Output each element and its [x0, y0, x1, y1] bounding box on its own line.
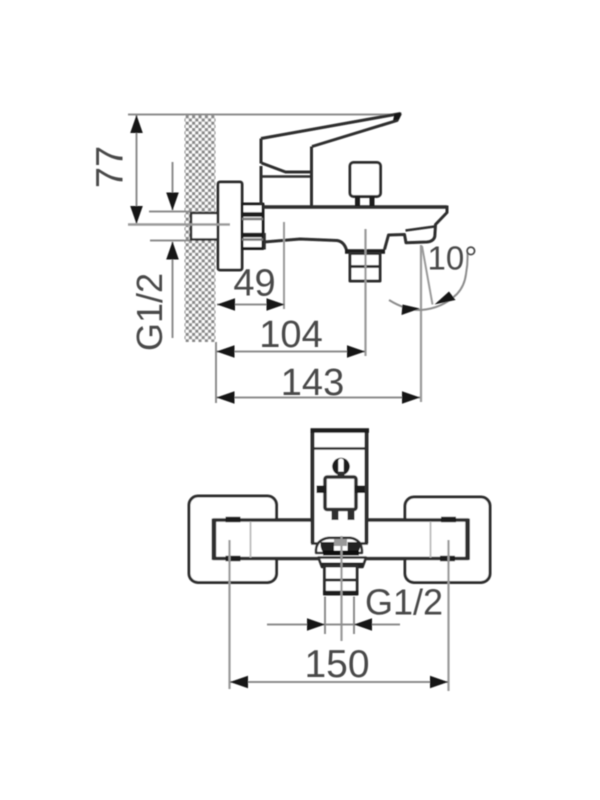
svg-text:49: 49 — [233, 263, 275, 305]
body underside — [264, 239, 347, 250]
arrow 77 down — [130, 206, 143, 224]
10 degree tilted ray — [422, 246, 433, 305]
lever chin — [262, 163, 312, 172]
dimension 104 line — [217, 351, 366, 353]
bar left end cap — [212, 519, 216, 561]
cartridge housing top flange — [261, 175, 312, 178]
spout axis extension line — [420, 245, 422, 402]
cartridge axis extension line — [283, 222, 285, 309]
svg-text:143: 143 — [281, 362, 344, 404]
150 extension line right — [447, 540, 449, 691]
knob stem right — [370, 197, 375, 207]
arrow 150 right — [430, 676, 448, 689]
thread bottom thick — [323, 591, 359, 595]
union nub left top — [226, 517, 241, 523]
G1/2 arrow pointing right — [307, 618, 325, 631]
dimension 150 line — [230, 681, 448, 683]
G1/2 arrow up (below pipe) — [166, 242, 179, 260]
arc arrow left (points right at vertical ray) — [402, 305, 421, 316]
dimension 143 line — [217, 397, 421, 399]
G1/2 extension line bottom — [150, 240, 192, 242]
G1/2 extension line top — [149, 211, 192, 213]
cartridge figure head — [332, 458, 350, 476]
nut facet line 1 — [242, 212, 263, 217]
cartridge housing right edge — [310, 147, 313, 206]
svg-text:G1/2: G1/2 — [129, 273, 170, 351]
arc arrow right (points down-left at tilted ray) — [435, 292, 456, 305]
arrow 104 right — [347, 345, 365, 358]
wall surface extension line (below hatch) — [215, 342, 217, 403]
dome cavity right — [348, 542, 361, 553]
cartridge figure arm right — [355, 486, 365, 494]
nut facet line 2 — [242, 233, 263, 238]
cartridge figure neck — [338, 472, 345, 479]
handle bottom stub left — [311, 542, 326, 545]
shower outlet flange — [345, 249, 385, 254]
dimension 77 line — [136, 115, 138, 223]
arrow 143 right — [402, 391, 420, 404]
extension line top (77) — [128, 114, 398, 116]
shower outlet body — [350, 254, 380, 282]
pipe centerline — [128, 223, 230, 226]
right escutcheon — [405, 497, 490, 583]
dome base band — [323, 551, 359, 556]
handle inner line — [313, 447, 367, 450]
body bar — [214, 520, 469, 559]
wall (hatched) — [185, 116, 216, 343]
svg-text:10°: 10° — [428, 240, 478, 277]
dome center stem — [334, 539, 347, 546]
knob stem left — [355, 197, 360, 207]
lever tip fill — [393, 113, 402, 121]
spout tip — [385, 206, 448, 250]
arrow 104 left — [217, 345, 235, 358]
diverter dome — [316, 538, 362, 553]
shower outlet axis extension line — [364, 229, 366, 356]
G1/2 dimension line upper segment — [172, 162, 174, 210]
escutcheon (side view) — [218, 182, 242, 270]
dimension 49 line — [217, 304, 285, 306]
faucet body top edge — [263, 205, 447, 209]
arrow 49 left — [217, 298, 235, 311]
arrow 49 right — [267, 298, 285, 311]
cartridge housing left edge — [260, 166, 263, 206]
arrow 77 up — [130, 115, 143, 133]
union flange line left — [250, 522, 252, 558]
svg-text:77: 77 — [90, 146, 132, 188]
union nub left bottom — [226, 556, 241, 562]
thread line — [325, 579, 358, 582]
handle column — [311, 429, 369, 545]
wall pipe stub — [191, 213, 218, 240]
spout mouth seam — [406, 227, 435, 231]
outlet axis line — [340, 536, 342, 641]
cartridge figure leg left — [332, 510, 339, 521]
arrow 143 left — [217, 391, 235, 404]
handle bottom stub right — [353, 542, 368, 545]
svg-text:150: 150 — [304, 643, 369, 686]
lever front face — [260, 139, 263, 164]
G1/2 extension line right — [353, 597, 355, 635]
union nub right bottom — [440, 556, 455, 562]
bar right end cap — [465, 519, 469, 561]
150 extension line left — [228, 540, 230, 689]
shower outlet thread line — [350, 265, 380, 268]
G1/2 arrow down (above pipe) — [166, 193, 179, 211]
outlet thread — [325, 566, 358, 594]
cartridge figure arm left — [317, 486, 327, 494]
lever tip + underside — [312, 114, 401, 147]
G1/2 dimension line lower segment — [172, 242, 174, 338]
union nub right top — [441, 517, 456, 523]
G1/2 dimension line — [267, 624, 400, 626]
cartridge figure leg right — [348, 510, 355, 521]
cartridge figure torso — [325, 477, 356, 510]
union flange line right — [430, 522, 432, 558]
arrow 150 left — [230, 676, 248, 689]
G1/2 arrow pointing left — [354, 618, 372, 631]
lever top edge — [261, 114, 401, 139]
collar — [319, 558, 367, 568]
svg-text:104: 104 — [259, 314, 322, 356]
handle top edge thick — [311, 428, 370, 433]
left escutcheon — [189, 496, 277, 583]
connection nut — [242, 204, 263, 249]
G1/2 extension line left — [324, 597, 326, 635]
dome cavity left — [320, 542, 334, 553]
collar dark band — [322, 563, 364, 568]
body left face — [263, 233, 266, 250]
diverter knob — [350, 163, 381, 197]
10 degree arc — [389, 252, 468, 310]
svg-text:G1/2: G1/2 — [365, 582, 443, 623]
